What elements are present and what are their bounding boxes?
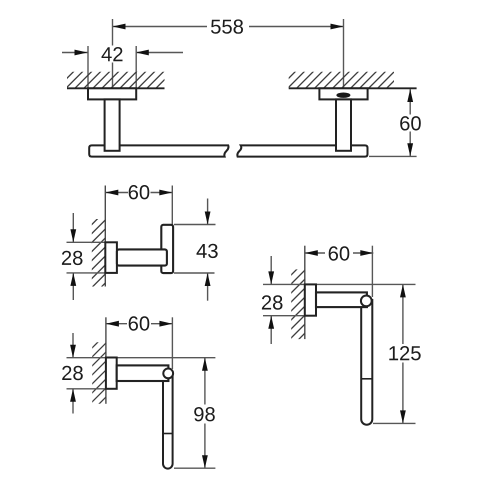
dimension 42 right extension tick xyxy=(135,46,137,88)
holder98 roller sleeve line xyxy=(163,433,173,435)
holder98 pivot circle xyxy=(163,369,173,379)
holder125 dimension 60 line right segment xyxy=(353,252,373,254)
hook dimension 43 bottom arrow stem xyxy=(207,273,209,300)
hook dimension 43 top arrowhead (down) xyxy=(205,212,211,225)
hook dimension 60 line right segment xyxy=(151,192,173,194)
holder125 dimension 60 line left segment xyxy=(305,252,325,254)
holder98 dimension 98 text xyxy=(194,407,215,421)
dimension 558 right extension tick xyxy=(343,19,345,88)
holder98 dimension 98 down arrowhead xyxy=(202,455,208,468)
hook dimension 60 right tick xyxy=(171,186,173,225)
holder125 wall hatching xyxy=(290,251,307,349)
holder125 dimension 60 right arrowhead xyxy=(360,250,373,256)
holder98 dimension 28 text xyxy=(62,366,83,380)
dimension 42 right arrowhead xyxy=(136,50,149,56)
right wall hatching xyxy=(268,70,414,90)
holder125 wall plate xyxy=(305,284,316,315)
holder125 wall line / left tick xyxy=(304,246,306,339)
hook wall hatching xyxy=(90,201,107,299)
dimension 558 line left segment xyxy=(113,26,208,28)
dimension 42 right arrow line xyxy=(136,52,183,54)
hook wall plate xyxy=(105,242,117,273)
hook dimension 60 right arrowhead xyxy=(159,190,172,196)
left wall surface line xyxy=(67,87,165,89)
hook vertical piece xyxy=(161,225,173,273)
hook dimension 28 bottom arrow stem xyxy=(72,273,74,300)
holder98 dimension 60 left arrowhead xyxy=(106,321,119,327)
holder98 dimension 60 right arrowhead xyxy=(159,321,172,327)
holder125 roller sleeve line xyxy=(361,378,372,380)
holder125 pivot circle xyxy=(361,296,372,307)
dimension 558 left arrowhead xyxy=(113,24,126,30)
dimension 558 left extension tick upper xyxy=(112,19,114,46)
dimension 42 left extension tick xyxy=(87,46,89,88)
holder98 wall hatching xyxy=(91,324,108,422)
holder98 long top extension line (28 & 98) xyxy=(67,357,216,359)
holder98 dimension 98 line upper segment xyxy=(204,358,206,405)
holder98 dimension 60 right tick xyxy=(171,317,173,369)
hook dimension 43 bottom extension line xyxy=(174,272,215,274)
holder98 dimension 28 top arrow stem xyxy=(72,333,74,357)
holder125 dimension 60 text xyxy=(329,246,350,260)
holder125 long top extension line (28 & 125) xyxy=(263,283,416,285)
holder98 dimension 28 bottom extension line xyxy=(67,388,117,390)
hook dimension 28 top extension line xyxy=(67,241,117,243)
hook dimension 28 top arrow stem xyxy=(72,213,74,242)
holder98 wall line / left tick xyxy=(105,317,107,404)
hook dimension 60 text xyxy=(129,185,150,199)
towel bar left segment xyxy=(89,145,228,156)
holder125 dimension 125 down arrowhead xyxy=(400,410,406,423)
left bracket flange xyxy=(88,88,136,99)
holder125 dimension 60 left arrowhead xyxy=(305,250,318,256)
towel bar right segment xyxy=(237,145,367,156)
hook dimension 43 top arrow stem xyxy=(207,199,209,225)
holder125 dimension 28 top arrow stem xyxy=(270,256,272,284)
hook arm xyxy=(117,249,167,265)
dimension 42 text xyxy=(102,47,123,61)
holder98 dimension 98 up arrowhead xyxy=(202,358,208,371)
holder125 dimension 28 top arrowhead (down) xyxy=(268,271,274,284)
dimension 558 text xyxy=(211,19,243,33)
holder98 dimension 28 bottom arrow stem xyxy=(72,389,74,413)
holder125 dimension 28 bottom arrowhead (up) xyxy=(268,316,274,329)
holder125 dimension 60 right tick xyxy=(371,246,373,297)
hook wall line / left tick xyxy=(104,186,106,287)
holder125 dimension 125 bottom extension line xyxy=(373,422,416,424)
dimension 60 (top right) bottom extension line xyxy=(369,155,417,157)
dimension 60 (top right) up arrowhead xyxy=(407,89,413,102)
holder98 dimension 98 bottom extension line xyxy=(174,467,215,469)
left wall hatching xyxy=(46,70,183,90)
hook dimension 28 top arrowhead (down) xyxy=(70,229,76,242)
hook dimension 43 text xyxy=(197,244,218,258)
holder125 dimension 125 text xyxy=(389,346,420,360)
hook dimension 60 left arrowhead xyxy=(105,190,118,196)
logo blob on right flange xyxy=(336,93,350,98)
right bracket flange xyxy=(319,88,367,99)
holder125 dimension 125 line upper segment xyxy=(402,285,404,344)
holder98 dimension 28 bottom arrowhead (up) xyxy=(70,389,76,402)
right bracket post xyxy=(336,99,351,150)
hook dimension 28 bottom extension line xyxy=(67,272,117,274)
holder98 wall plate xyxy=(106,358,117,389)
dimension 60 (top right) line lower segment xyxy=(409,132,411,157)
dimension 60 (top right) text xyxy=(400,116,421,130)
right wall surface line (extends to 60 dim) xyxy=(289,87,417,89)
dimension 558 line right segment xyxy=(249,26,344,28)
dimension 558 left extension tick lower xyxy=(112,63,114,89)
holder125 dimension 125 line lower segment xyxy=(402,363,404,424)
dimension 60 (top right) down arrowhead xyxy=(407,143,413,156)
holder125 dimension 125 up arrowhead xyxy=(400,284,406,297)
dimension 558 right arrowhead xyxy=(331,24,344,30)
holder125 dimension 28 text xyxy=(262,295,283,309)
holder98 dimension 60 text xyxy=(129,316,150,330)
holder125 arm xyxy=(316,292,367,307)
holder125 roller xyxy=(361,299,372,425)
hook dimension 60 line left segment with arrow xyxy=(105,192,128,194)
hook dimension 43 bottom arrowhead (up) xyxy=(205,273,211,286)
hook dimension 28 bottom arrowhead (up) xyxy=(70,273,76,286)
holder98 dimension 28 top arrowhead (down) xyxy=(70,345,76,358)
hook dimension 28 text xyxy=(62,251,83,265)
left bracket post xyxy=(105,99,120,150)
holder125 dimension 28 bottom extension line xyxy=(263,315,316,317)
holder98 dimension 60 line left segment xyxy=(106,323,127,325)
dimension 60 (top right) line upper segment xyxy=(409,89,411,115)
holder125 dimension 28 bottom arrow stem xyxy=(270,316,272,344)
hook dimension 43 top extension line xyxy=(174,224,216,226)
holder98 dimension 60 line right segment xyxy=(151,323,172,325)
holder98 arm xyxy=(117,365,169,381)
holder98 roller xyxy=(163,371,173,469)
dimension 42 left arrowhead xyxy=(75,50,88,56)
dimension 42 left arrow line xyxy=(62,52,88,54)
holder98 dimension 98 line lower segment xyxy=(204,424,206,469)
